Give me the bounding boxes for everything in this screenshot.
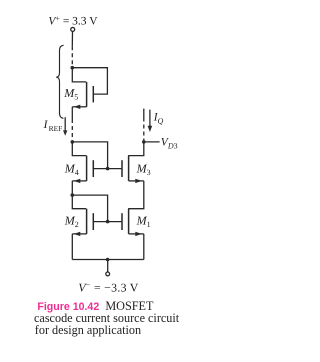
node A junction dot xyxy=(71,66,75,70)
node VD3 junction dot xyxy=(142,140,146,144)
label M2 xyxy=(64,214,79,230)
wire node C to M2 drain xyxy=(72,195,86,209)
caption line 2 xyxy=(34,312,179,324)
caption figure number xyxy=(37,300,153,313)
transistor M1 xyxy=(122,209,144,236)
current arrow IREF xyxy=(63,117,67,136)
svg-text:IQ: IQ xyxy=(153,112,164,126)
wire M2 source to bottom rail xyxy=(71,234,73,260)
transistor M2 xyxy=(72,209,93,236)
wire bottom rail xyxy=(72,259,144,261)
wire M5 source down (solid then dashed) xyxy=(71,107,73,119)
node V+ supply label xyxy=(48,14,98,28)
node V- supply label xyxy=(78,280,138,294)
wire node VD3 stub xyxy=(144,141,160,143)
label M3 xyxy=(136,162,151,178)
node bottom rail junction dot xyxy=(106,258,110,262)
wire M4 source to node C xyxy=(71,181,73,195)
wire gate rail M2-M1 xyxy=(94,221,122,223)
wire node B to gate rail feed xyxy=(72,142,107,169)
label M5 xyxy=(63,86,78,102)
terminal V- xyxy=(106,272,110,276)
svg-text:M4: M4 xyxy=(64,162,79,178)
wire stub to V- terminal xyxy=(107,260,109,273)
wire IQ output (solid then dashed) xyxy=(143,109,145,118)
caption line 3 xyxy=(35,324,141,336)
wire node B to M4 drain xyxy=(72,142,86,156)
node gate-rail junction dot (M4-M3) xyxy=(106,167,110,171)
svg-text:VD3: VD3 xyxy=(161,137,178,151)
node lower gate-rail junction dot (M2-M1) xyxy=(106,220,110,224)
svg-text:V+ = 3.3 V: V+ = 3.3 V xyxy=(48,14,98,28)
wire M5 gate loop xyxy=(72,68,107,94)
label VD3 xyxy=(161,137,178,151)
label M1 xyxy=(136,214,151,230)
brace grouping M5 xyxy=(56,45,63,118)
terminal V+ xyxy=(71,27,75,31)
wire node VD3 to M3 drain xyxy=(128,142,144,156)
svg-text:M2: M2 xyxy=(64,214,79,230)
label IREF xyxy=(43,119,63,133)
label IQ xyxy=(153,112,164,126)
transistor M5 xyxy=(72,82,93,109)
node B junction dot xyxy=(71,140,75,144)
svg-text:V− = −3.3 V: V− = −3.3 V xyxy=(78,280,138,294)
svg-text:M3: M3 xyxy=(136,162,151,178)
wire M3 source to M1 drain xyxy=(128,181,144,209)
node C junction dot xyxy=(71,193,75,197)
wire node A to M5 drain xyxy=(72,68,86,82)
wire M1 source to bottom rail xyxy=(143,234,145,260)
wire gate rail M4-M3 xyxy=(94,168,122,170)
svg-text:REF: REF xyxy=(49,124,63,133)
current arrow IQ xyxy=(148,110,153,132)
svg-text:M5: M5 xyxy=(63,86,78,102)
transistor M3 xyxy=(122,156,144,184)
wire node C to lower gate rail feed xyxy=(72,195,107,222)
svg-text:M1: M1 xyxy=(136,214,151,230)
wire dashed V+ to node A xyxy=(71,32,73,47)
label M4 xyxy=(64,162,79,178)
transistor M4 xyxy=(72,156,93,184)
